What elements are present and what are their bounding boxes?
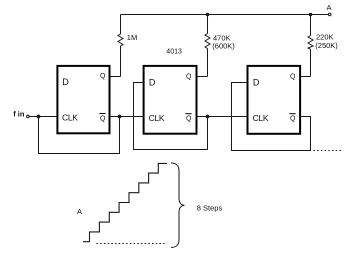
svg-text:(250K): (250K): [315, 41, 338, 50]
svg-text:f in: f in: [13, 110, 25, 119]
svg-text:(600K): (600K): [212, 41, 235, 50]
svg-text:1M: 1M: [127, 33, 137, 42]
svg-text:D: D: [149, 77, 156, 87]
svg-text:A: A: [77, 207, 82, 216]
svg-text:Q: Q: [100, 73, 106, 80]
svg-text:Q: Q: [290, 116, 296, 123]
svg-text:4013: 4013: [166, 48, 182, 55]
svg-text:Q: Q: [186, 116, 192, 123]
svg-text:Q: Q: [290, 73, 296, 80]
svg-text:CLK: CLK: [253, 113, 269, 123]
svg-text:A: A: [326, 3, 331, 12]
svg-text:8 Steps: 8 Steps: [197, 203, 223, 212]
svg-text:D: D: [62, 77, 69, 87]
svg-text:Q: Q: [100, 115, 106, 122]
svg-text:D: D: [253, 77, 260, 87]
svg-text:Q: Q: [186, 73, 192, 80]
svg-text:CLK: CLK: [149, 113, 165, 123]
svg-text:CLK: CLK: [62, 113, 78, 123]
